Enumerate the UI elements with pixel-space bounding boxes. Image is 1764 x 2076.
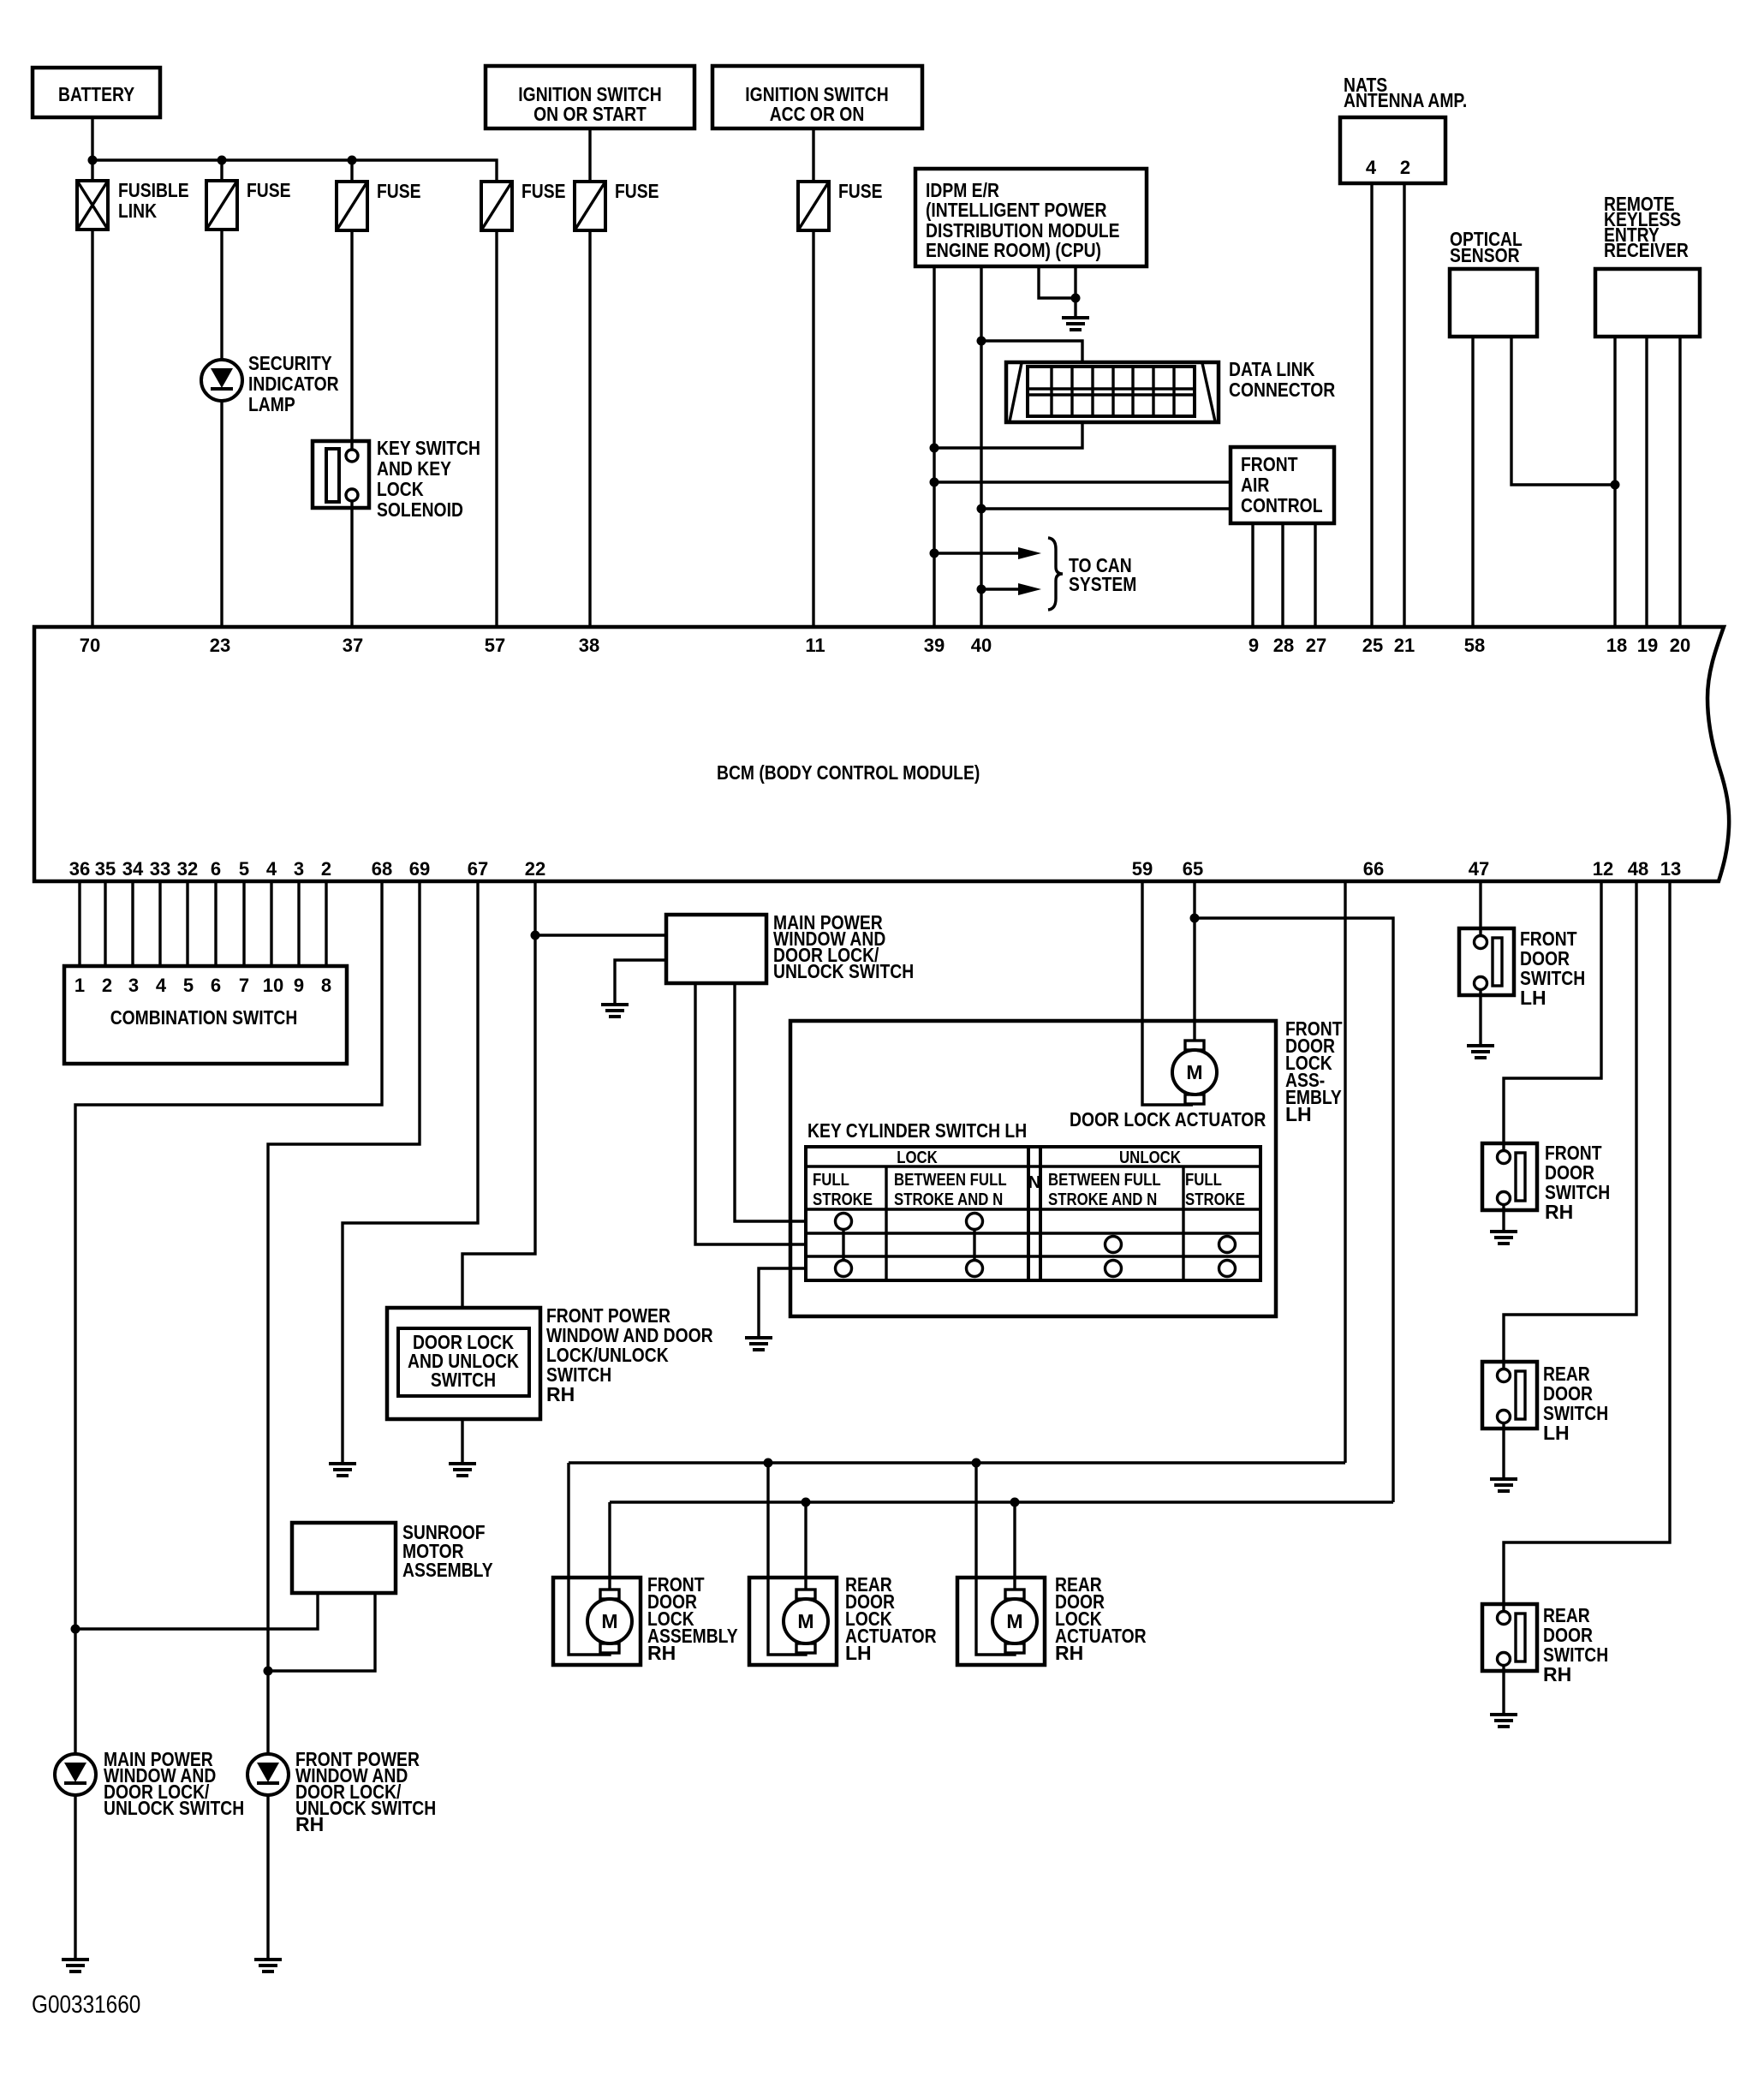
- wire lower bus to rear RH motor: [1013, 1502, 1016, 1590]
- svg-text:BETWEEN FULL: BETWEEN FULL: [894, 1171, 1007, 1190]
- key cylinder contact row3 unlock between: [1105, 1261, 1122, 1277]
- svg-text:3: 3: [294, 858, 304, 880]
- svg-text:ACC OR ON: ACC OR ON: [770, 103, 865, 125]
- svg-text:40: 40: [971, 635, 992, 656]
- wire CAN branch 1: [934, 552, 1021, 554]
- svg-text:UNLOCK SWITCH: UNLOCK SWITCH: [773, 960, 914, 982]
- wire IDPM to BCM pin 40: [980, 266, 982, 627]
- svg-text:STROKE: STROKE: [1185, 1190, 1245, 1209]
- svg-text:RH: RH: [1055, 1642, 1083, 1664]
- svg-text:69: 69: [409, 858, 430, 880]
- svg-text:36: 36: [69, 858, 90, 880]
- svg-text:39: 39: [924, 635, 945, 656]
- svg-text:CONNECTOR: CONNECTOR: [1229, 379, 1336, 401]
- svg-text:COMBINATION SWITCH: COMBINATION SWITCH: [110, 1006, 298, 1029]
- svg-text:58: 58: [1464, 635, 1485, 656]
- fuse F3: [481, 180, 566, 230]
- front door lock assembly LH box: [790, 1021, 1276, 1316]
- wire front door switch LH to ground: [1479, 989, 1481, 1044]
- wire CAN branch 2: [981, 588, 1021, 590]
- label rear door lock actuator LH: [845, 1573, 937, 1664]
- svg-text:FUSE: FUSE: [838, 180, 883, 202]
- svg-text:4: 4: [266, 858, 277, 880]
- svg-text:LH: LH: [1543, 1422, 1570, 1444]
- key cylinder contact row2 unlock full stroke: [1219, 1237, 1236, 1253]
- wire BCM pin 59 to door lock actuator LH: [1142, 881, 1193, 1105]
- wire BCM pin 48 to rear door switch LH: [1504, 881, 1636, 1369]
- wire keyless to BCM pin 18: [1613, 337, 1616, 627]
- junction CAN branch 2: [977, 585, 986, 594]
- fuse F5: [798, 180, 883, 230]
- security indicator lamp: [201, 352, 339, 415]
- svg-text:1: 1: [74, 975, 85, 996]
- fuse F2: [337, 180, 421, 230]
- svg-text:20: 20: [1670, 635, 1690, 656]
- svg-text:ENGINE ROOM) (CPU): ENGINE ROOM) (CPU): [926, 239, 1101, 261]
- svg-text:SECURITY: SECURITY: [248, 352, 332, 374]
- wire keyless to BCM pin 20: [1678, 337, 1681, 627]
- brace CAN: [1048, 538, 1063, 610]
- svg-text:RH: RH: [647, 1642, 676, 1664]
- svg-text:STROKE AND N: STROKE AND N: [1048, 1190, 1157, 1209]
- wire key cylinder row 3 to ground: [759, 1268, 806, 1336]
- battery: [33, 68, 160, 117]
- wire LED1 to ground: [74, 1795, 76, 1959]
- wire BCM pin 66 to upper actuator bus: [1344, 881, 1346, 1463]
- junction bus-battery: [88, 156, 98, 165]
- label front power window switch RH: [546, 1304, 713, 1405]
- svg-text:35: 35: [95, 858, 116, 880]
- ignition switch ACC OR ON: [712, 66, 922, 128]
- wire BCM pin 67 to ground: [343, 881, 478, 1462]
- svg-text:FUSE: FUSE: [615, 180, 659, 202]
- combination switch: [64, 966, 347, 1064]
- key cylinder contact row3 lock full stroke: [836, 1261, 852, 1277]
- svg-text:KEY SWITCH: KEY SWITCH: [377, 437, 480, 459]
- key cylinder contact row1 lock between: [967, 1214, 983, 1230]
- svg-text:67: 67: [468, 858, 488, 880]
- svg-text:2: 2: [321, 858, 331, 880]
- label rear door switch LH: [1543, 1363, 1608, 1444]
- svg-text:AND KEY: AND KEY: [377, 457, 451, 480]
- svg-text:KEY CYLINDER SWITCH LH: KEY CYLINDER SWITCH LH: [808, 1119, 1027, 1142]
- data link connector: [1006, 358, 1336, 422]
- svg-text:LH: LH: [1520, 987, 1546, 1009]
- wire fuse F2 to key switch: [350, 230, 353, 450]
- wire optical sensor to keyless node: [1511, 337, 1615, 485]
- svg-text:DOOR LOCK ACTUATOR: DOOR LOCK ACTUATOR: [1070, 1108, 1266, 1130]
- label TO CAN SYSTEM: [1069, 554, 1136, 595]
- junction CAN branch 1: [930, 549, 939, 558]
- svg-text:UNLOCK: UNLOCK: [1119, 1148, 1181, 1167]
- svg-text:34: 34: [122, 858, 144, 880]
- svg-text:2: 2: [1400, 157, 1410, 178]
- BCM bottom pin labels: [69, 858, 1681, 880]
- wire LED2 to ground: [266, 1795, 269, 1959]
- ground main power window switch: [601, 1005, 629, 1017]
- ground pin 67: [329, 1464, 356, 1476]
- optical sensor: [1450, 228, 1537, 337]
- svg-text:AIR: AIR: [1241, 474, 1270, 496]
- wire ignition ON/START to fuse F4: [588, 128, 591, 182]
- ground IDPM: [1062, 318, 1089, 330]
- door lock actuator LH motor: [1172, 1041, 1217, 1104]
- wire bus to fuse F1: [220, 160, 223, 181]
- svg-text:ANTENNA AMP.: ANTENNA AMP.: [1344, 89, 1467, 111]
- fuse F1: [206, 179, 291, 230]
- svg-text:18: 18: [1606, 635, 1627, 656]
- svg-text:SWITCH: SWITCH: [431, 1369, 496, 1391]
- svg-text:13: 13: [1660, 858, 1681, 880]
- svg-text:SOLENOID: SOLENOID: [377, 498, 463, 521]
- wire data link connector to node 39: [934, 422, 1082, 448]
- wire BCM pin 22 to door lock and unlock switch RH: [462, 881, 535, 1308]
- svg-text:38: 38: [579, 635, 599, 656]
- wire sunroof to pin 69 node: [268, 1593, 375, 1671]
- door lock and unlock switch: [387, 1308, 540, 1419]
- svg-text:BETWEEN FULL: BETWEEN FULL: [1048, 1171, 1161, 1190]
- svg-text:19: 19: [1637, 635, 1658, 656]
- svg-text:STROKE AND N: STROKE AND N: [894, 1190, 1003, 1209]
- wire lower actuator bus: [610, 1500, 1393, 1503]
- wire contact link col1: [842, 1229, 844, 1261]
- wire rear door switch RH to ground: [1502, 1665, 1505, 1713]
- svg-text:9: 9: [1249, 635, 1259, 656]
- NATS antenna amp: [1340, 74, 1467, 183]
- label rear door switch RH: [1543, 1604, 1608, 1685]
- svg-text:FUSE: FUSE: [377, 180, 421, 202]
- svg-text:FULL: FULL: [813, 1171, 849, 1190]
- front door lock assembly RH: [553, 1578, 641, 1665]
- wire BCM pin 65 to door lock actuator LH: [1193, 881, 1195, 1041]
- wire front air control to BCM pin 9: [1251, 523, 1254, 627]
- svg-text:8: 8: [321, 975, 331, 996]
- wire BCM pin 68 to main power window LED switch: [75, 881, 382, 1754]
- BCM top pin labels: [80, 635, 1690, 656]
- fusible link: [77, 179, 189, 230]
- svg-text:FUSE: FUSE: [247, 179, 291, 201]
- junction DLC / node 39: [930, 444, 939, 453]
- wire upper bus to rear LH motor: [768, 1463, 806, 1655]
- junction pin 22 branch: [531, 931, 540, 940]
- svg-text:28: 28: [1273, 635, 1294, 656]
- wire sunroof to pin 68 node: [75, 1593, 318, 1629]
- svg-text:SYSTEM: SYSTEM: [1069, 573, 1136, 595]
- wire ignition ACC to fuse F5: [812, 128, 814, 182]
- wire pin 22 node to main power window switch: [535, 934, 666, 936]
- svg-text:LOCK: LOCK: [377, 478, 424, 500]
- junction upper bus / rear LH: [764, 1459, 773, 1468]
- wire pin 65 node to lower actuator bus: [1195, 918, 1393, 1502]
- wire rear door switch LH to ground: [1502, 1423, 1505, 1477]
- svg-text:48: 48: [1628, 858, 1648, 880]
- svg-text:LH: LH: [1285, 1103, 1312, 1125]
- svg-text:65: 65: [1183, 858, 1203, 880]
- wire BCM pin 69 to front power window LED switch: [268, 881, 420, 1754]
- ground front door switch LH: [1467, 1046, 1494, 1058]
- main power window and door lock/unlock switch LED: [55, 1748, 244, 1819]
- wire main power window switch to key cylinder row 2: [695, 983, 806, 1244]
- svg-text:INDICATOR: INDICATOR: [248, 373, 339, 395]
- junction pin 68 wire / sunroof: [71, 1625, 80, 1634]
- wire node 40 to front air control: [981, 507, 1231, 510]
- wire contact link col2: [973, 1229, 975, 1261]
- svg-text:RH: RH: [1543, 1663, 1571, 1685]
- junction pin 69 wire / sunroof: [264, 1667, 273, 1676]
- arrowhead CAN 2: [1018, 583, 1041, 595]
- rear door lock actuator RH: [957, 1578, 1045, 1665]
- wire upper actuator bus: [569, 1461, 1345, 1464]
- front door switch LH: [1459, 928, 1514, 995]
- junction upper bus / rear RH: [972, 1459, 981, 1468]
- wire node 40 to data link connector: [981, 341, 1082, 362]
- junction node 40 / DLC: [977, 337, 986, 346]
- wire front door switch RH to ground: [1502, 1204, 1505, 1230]
- sunroof motor assembly: [292, 1521, 493, 1593]
- wire BCM pin 13 to rear door switch RH: [1504, 881, 1670, 1612]
- svg-text:7: 7: [239, 975, 249, 996]
- BCM body control module: [34, 627, 1729, 881]
- svg-text:10: 10: [263, 975, 283, 996]
- svg-text:2: 2: [102, 975, 112, 996]
- key cylinder switch table: [806, 1147, 1260, 1280]
- ground door lock and unlock switch: [449, 1464, 476, 1476]
- wire lower bus to rear LH motor: [804, 1502, 807, 1590]
- main power window and door lock/unlock switch: [666, 911, 914, 983]
- svg-text:59: 59: [1132, 858, 1153, 880]
- wire upper bus to rear RH motor: [976, 1463, 1015, 1655]
- wires BCM pins 36-2 to combination switch: [80, 881, 326, 966]
- ignition switch ON OR START: [486, 66, 694, 128]
- wire bus to fuse F2: [350, 160, 353, 182]
- label front door switch RH: [1545, 1142, 1610, 1223]
- svg-text:DATA LINK: DATA LINK: [1229, 358, 1315, 380]
- key cylinder contact row3 unlock full stroke: [1219, 1261, 1236, 1277]
- svg-text:RH: RH: [1545, 1201, 1573, 1223]
- label rear door lock actuator RH: [1055, 1573, 1147, 1664]
- ground front door switch RH: [1490, 1232, 1517, 1244]
- svg-text:BATTERY: BATTERY: [58, 83, 134, 105]
- remote keyless entry receiver: [1595, 193, 1700, 337]
- wire fuse F1 to security lamp: [220, 230, 223, 361]
- svg-text:66: 66: [1363, 858, 1384, 880]
- wire security lamp to BCM pin 23: [220, 400, 223, 627]
- svg-text:70: 70: [80, 635, 100, 656]
- svg-text:6: 6: [211, 858, 221, 880]
- front air control: [1231, 447, 1334, 523]
- svg-text:SENSOR: SENSOR: [1450, 244, 1520, 266]
- rear door switch RH: [1482, 1604, 1537, 1671]
- key switch and key lock solenoid: [313, 437, 480, 521]
- junction node 39 branch: [930, 478, 939, 487]
- junction bus-fuse F1: [218, 156, 227, 165]
- junction lower bus / rear LH: [802, 1498, 811, 1507]
- svg-text:ON OR START: ON OR START: [533, 103, 647, 125]
- svg-text:3: 3: [128, 975, 139, 996]
- svg-text:9: 9: [294, 975, 304, 996]
- wire keyless to BCM pin 19: [1645, 337, 1648, 627]
- svg-text:47: 47: [1469, 858, 1489, 880]
- svg-text:FULL: FULL: [1185, 1171, 1222, 1190]
- svg-text:FRONT: FRONT: [1241, 453, 1298, 475]
- key cylinder contact row3 lock between: [967, 1261, 983, 1277]
- svg-text:23: 23: [210, 635, 230, 656]
- svg-text:37: 37: [343, 635, 363, 656]
- svg-text:FUSIBLE: FUSIBLE: [118, 179, 189, 201]
- svg-text:25: 25: [1362, 635, 1383, 656]
- junction lower bus / rear RH: [1010, 1498, 1020, 1507]
- svg-text:UNLOCK SWITCH: UNLOCK SWITCH: [104, 1797, 244, 1819]
- ground rear door switch RH: [1490, 1715, 1517, 1727]
- label front door lock assembly LH: [1285, 1017, 1343, 1125]
- wire BCM pin 12 to front door switch RH: [1504, 881, 1601, 1151]
- svg-text:(INTELLIGENT POWER: (INTELLIGENT POWER: [926, 199, 1107, 221]
- label front door switch LH: [1520, 928, 1585, 1009]
- wire NATS pin 4 to BCM pin 25: [1370, 184, 1373, 627]
- svg-text:27: 27: [1306, 635, 1326, 656]
- front power window and door lock/unlock switch RH LED: [247, 1748, 436, 1835]
- wire main power window switch to key cylinder row 1: [735, 983, 806, 1221]
- rear door switch LH: [1482, 1362, 1537, 1429]
- wire door lock and unlock switch to ground: [461, 1419, 463, 1462]
- wire key switch to BCM pin 37: [350, 501, 353, 627]
- arrowhead CAN 1: [1018, 547, 1041, 559]
- ground key cylinder: [745, 1338, 772, 1350]
- wire IDPM ground stub: [1039, 266, 1076, 298]
- svg-text:N: N: [1028, 1173, 1040, 1192]
- svg-text:BCM (BODY CONTROL MODULE): BCM (BODY CONTROL MODULE): [717, 761, 980, 784]
- wire IDPM to BCM pin 39: [933, 266, 935, 627]
- wire front air control to BCM pin 28: [1281, 523, 1284, 627]
- IPDM E/R module: [915, 169, 1147, 266]
- svg-text:ASSEMBLY: ASSEMBLY: [402, 1559, 493, 1581]
- key cylinder contact row1 lock full stroke: [836, 1214, 852, 1230]
- wire IDPM ground drop: [1074, 266, 1076, 316]
- wire fusible link to BCM pin 70: [91, 230, 93, 627]
- wire lower bus to front RH motor: [608, 1502, 611, 1590]
- svg-text:LAMP: LAMP: [248, 393, 295, 415]
- svg-text:LOCK: LOCK: [897, 1148, 938, 1167]
- wire optical sensor to BCM pin 58: [1471, 337, 1474, 627]
- wire main power window switch to ground: [615, 960, 666, 1003]
- svg-text:LH: LH: [845, 1642, 872, 1664]
- wire BCM pin 47 to front door switch LH: [1479, 881, 1481, 936]
- svg-text:LINK: LINK: [118, 200, 157, 222]
- wire fuse F5 to BCM pin 11: [812, 230, 814, 627]
- ground LED1: [62, 1960, 89, 1972]
- junction node 40 branch: [977, 504, 986, 514]
- junction IDPM ground: [1071, 294, 1081, 303]
- svg-text:RH: RH: [295, 1813, 324, 1835]
- svg-text:G00331660: G00331660: [32, 1991, 140, 2019]
- svg-text:11: 11: [805, 635, 825, 656]
- fuse F4: [575, 180, 659, 230]
- wire front air control to BCM pin 27: [1314, 523, 1316, 627]
- junction pin 65 branch: [1190, 914, 1200, 923]
- wire fuse F4 to BCM pin 38: [588, 230, 591, 627]
- svg-text:RECEIVER: RECEIVER: [1604, 239, 1689, 261]
- svg-text:RH: RH: [546, 1383, 575, 1405]
- wire upper bus to front RH motor: [569, 1463, 610, 1655]
- wire NATS pin 2 to BCM pin 21: [1403, 184, 1405, 627]
- svg-text:12: 12: [1593, 858, 1613, 880]
- wire power bus: [92, 160, 497, 182]
- svg-text:5: 5: [239, 858, 249, 880]
- svg-text:33: 33: [150, 858, 170, 880]
- junction optical / keyless: [1611, 480, 1620, 490]
- svg-text:32: 32: [177, 858, 198, 880]
- front door switch RH: [1482, 1143, 1537, 1210]
- svg-text:5: 5: [183, 975, 194, 996]
- svg-text:68: 68: [372, 858, 392, 880]
- svg-text:4: 4: [1366, 157, 1377, 178]
- junction bus-fuse F2: [348, 156, 357, 165]
- ground rear door switch LH: [1490, 1479, 1517, 1491]
- rear door lock actuator LH: [749, 1578, 837, 1665]
- ground LED2: [254, 1960, 282, 1972]
- svg-text:CONTROL: CONTROL: [1241, 494, 1323, 516]
- wire node 39 to front air control: [934, 480, 1231, 483]
- svg-text:57: 57: [485, 635, 505, 656]
- wire fuse F3 to BCM pin 57: [495, 230, 498, 627]
- svg-text:4: 4: [156, 975, 167, 996]
- label front door lock assembly RH: [647, 1573, 738, 1664]
- key cylinder contact row2 unlock between: [1105, 1237, 1122, 1253]
- svg-text:22: 22: [525, 858, 545, 880]
- svg-text:6: 6: [211, 975, 221, 996]
- svg-text:STROKE: STROKE: [813, 1190, 873, 1209]
- svg-text:21: 21: [1394, 635, 1415, 656]
- wire battery to power bus: [91, 117, 93, 181]
- svg-text:FUSE: FUSE: [521, 180, 566, 202]
